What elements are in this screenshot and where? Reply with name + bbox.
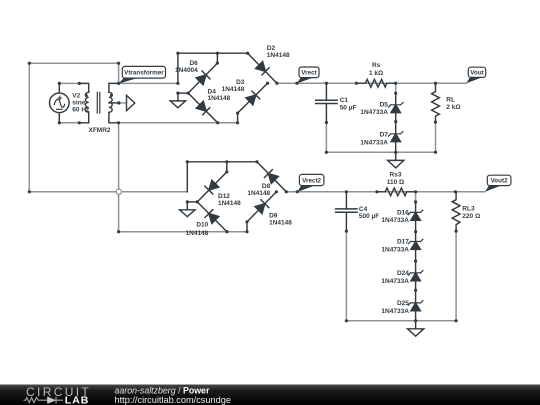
svg-text:110 Ω: 110 Ω [387,179,405,186]
svg-text:D9: D9 [269,213,278,220]
svg-text:1N4733A: 1N4733A [381,217,409,224]
svg-text:1N4004: 1N4004 [175,67,198,74]
wire Vtransformer riser [118,63,120,83]
voltage source V2 [50,83,70,122]
svg-text:Vtransformer: Vtransformer [124,70,164,77]
junction dots [28,62,31,65]
svg-text:Rs: Rs [372,62,381,69]
wire center tap to triangle marker [119,102,127,104]
diode D8 [265,170,279,184]
diode D2 [256,62,269,75]
ground bottom-right [408,321,424,336]
diode D4 [196,101,209,114]
svg-text:1N4148: 1N4148 [222,86,245,93]
wire V2 top [59,82,79,84]
wire C1 lower [325,123,327,153]
zener D24 [408,271,423,281]
svg-text:1N4148: 1N4148 [269,220,292,227]
capacitor C1 [316,83,337,122]
svg-text:220 Ω: 220 Ω [462,213,480,220]
resistor RL [432,83,440,122]
wire zener column upper feed [395,83,397,93]
wire Vrect2 rail [286,191,485,193]
resistor Rs3 [377,188,416,196]
svg-text:60 Hz: 60 Hz [72,107,90,114]
svg-text:RL3: RL3 [462,206,475,213]
svg-text:500 µF: 500 µF [359,213,379,220]
wire Vrect rail [277,82,466,84]
diode D6 [196,71,210,85]
svg-text:D6: D6 [189,60,198,67]
zener D16 [408,202,423,321]
svg-text:1N4148: 1N4148 [208,95,231,102]
wire left outer vertical [28,63,30,192]
svg-text:1N4733A: 1N4733A [381,308,409,315]
rectifier bridge 2 frame [187,162,286,232]
rectifier bridge 1 frame [178,53,277,123]
svg-text:Vout2: Vout2 [491,178,509,185]
svg-text:D25: D25 [397,300,409,307]
svg-text:Vout: Vout [470,70,484,77]
svg-text:1N4148: 1N4148 [267,52,290,59]
ground at bridge1 west [170,93,185,108]
wire top bottom-rail [326,151,435,153]
svg-text:D7: D7 [380,132,389,139]
node Vrect [297,67,319,83]
diode D12 [205,180,219,194]
wire bridge2 south rail [119,231,247,233]
svg-text:D17: D17 [397,239,409,246]
svg-text:1N4148: 1N4148 [247,190,270,197]
zener D25 [408,301,423,311]
svg-text:aaron-saltzberg / Power: aaron-saltzberg / Power [115,385,210,395]
wire C4 lower [345,231,347,321]
capacitor C4 [336,192,357,231]
wire top-left horizontal [29,62,118,64]
wire RL3 lower [455,231,457,321]
svg-text:1N4148: 1N4148 [218,200,241,207]
zener D7 [388,132,403,142]
svg-text:1N4733A: 1N4733A [360,140,388,147]
wire secondary top to bridge1 [119,82,178,84]
svg-text:D10: D10 [196,222,208,229]
diode D3 [246,91,260,105]
svg-text:C1: C1 [340,97,349,104]
svg-text:LAB: LAB [65,395,90,405]
ground at bridge2 west [180,202,195,217]
svg-text:1N4148: 1N4148 [186,230,209,237]
wire V2 bottom [59,122,79,124]
svg-text:Vrect: Vrect [301,70,317,77]
node Vout2 [485,175,511,192]
wire crossing hop [116,189,121,194]
svg-text:XFMR2: XFMR2 [88,127,110,134]
svg-text:2 kΩ: 2 kΩ [446,104,460,111]
wire zener column lower feed [415,192,417,202]
svg-text:D12: D12 [218,193,230,200]
svg-text:D16: D16 [397,209,409,216]
svg-text:C4: C4 [359,206,368,213]
svg-text:1N4733A: 1N4733A [360,109,388,116]
zener D5 [388,93,403,152]
svg-text:50 µF: 50 µF [340,105,357,112]
wire bottom-left horizontal to bridge2 [29,191,187,193]
wire lower bottom-rail [346,320,456,322]
svg-text:sine: sine [72,99,85,106]
node Vout [466,67,485,83]
resistor RL3 [452,192,460,231]
node Vrect2 [297,174,324,192]
ground top-right [388,152,404,168]
svg-text:1N4733A: 1N4733A [381,247,409,254]
svg-text:Rs3: Rs3 [390,171,402,178]
svg-text:RL: RL [446,97,455,104]
transformer XFMR2 [79,83,119,122]
wire RL lower [435,122,437,152]
svg-text:D24: D24 [397,270,409,277]
diode D9 [255,200,269,214]
svg-text:1 kΩ: 1 kΩ [369,70,383,77]
svg-text:Vrect2: Vrect2 [302,177,321,184]
svg-text:D5: D5 [380,102,389,109]
diode D10 [205,210,219,224]
wire secondary bottom to bridge1 south rail [119,122,238,124]
resistor Rs [356,79,395,87]
wire drop from xfmr bottom to bridge2 [118,123,120,232]
svg-text:1N4733A: 1N4733A [381,278,409,285]
zener D17 [408,239,423,249]
svg-text:http://circuitlab.com/csundge: http://circuitlab.com/csundge [115,395,231,405]
node Vtransformer [119,66,166,83]
center-tap triangle marker [127,95,135,110]
